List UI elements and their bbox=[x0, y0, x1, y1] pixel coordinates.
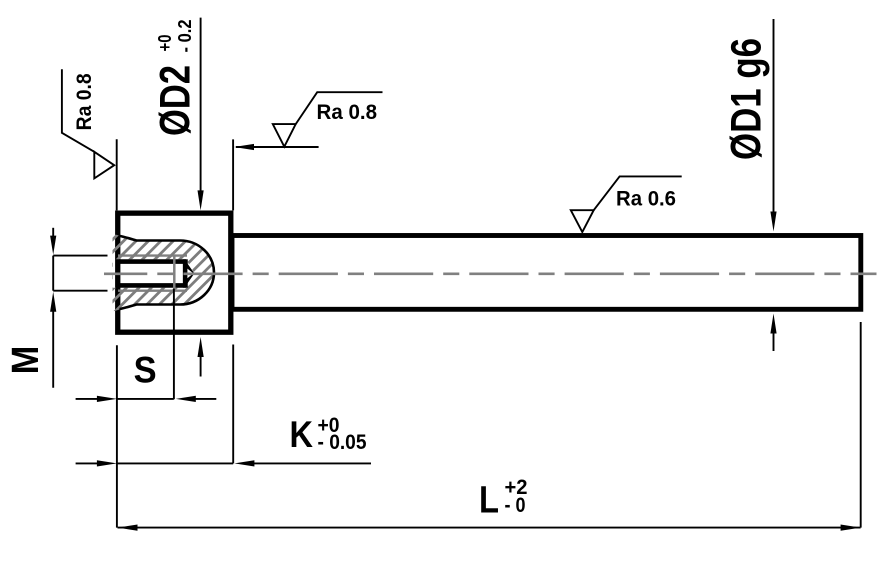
label ØD1 g6 (rotated) bbox=[722, 38, 770, 160]
L dimension line bbox=[118, 525, 861, 531]
tolerance +0 for K bbox=[318, 414, 340, 437]
surface finish symbol Ra 0.8 middle bbox=[273, 92, 383, 147]
dimension D1 arrow top bbox=[770, 19, 776, 232]
dimension D2 arrow bottom bbox=[198, 337, 204, 377]
label Ra 0.6 bbox=[616, 187, 676, 210]
head outline bbox=[118, 213, 231, 332]
thread depth line bbox=[173, 254, 176, 288]
M dimension line bbox=[50, 228, 56, 388]
extension line K right bbox=[232, 345, 234, 464]
extension line S right bbox=[173, 289, 175, 400]
svg-text:ØD1 g6: ØD1 g6 bbox=[722, 38, 770, 160]
label Ra 0.8 middle bbox=[317, 101, 378, 124]
thread crest line bottom bbox=[118, 290, 187, 292]
thread bore minor diameter bbox=[120, 259, 187, 287]
svg-text:- 0.2: - 0.2 bbox=[175, 20, 195, 53]
label Ra 0.8 left (rotated) bbox=[73, 73, 96, 130]
svg-text:- 0: - 0 bbox=[505, 494, 526, 517]
M extension line bottom bbox=[53, 290, 107, 292]
svg-text:Ra 0.6: Ra 0.6 bbox=[616, 187, 676, 210]
leader arrow Ra 0.8 middle bbox=[234, 144, 319, 150]
surface finish symbol Ra 0.8 left (rotated) bbox=[62, 69, 114, 178]
extension line head left below bbox=[116, 345, 118, 527]
surface finish symbol Ra 0.6 on shaft bbox=[571, 176, 682, 232]
shaft outline bbox=[232, 236, 861, 310]
label M (rotated) bbox=[5, 346, 47, 375]
tolerance +0 (rotated) bbox=[155, 35, 175, 52]
tolerance -0.2 (rotated) bbox=[175, 20, 195, 53]
tolerance -0.05 for K bbox=[318, 431, 367, 454]
extension line L right bbox=[860, 322, 862, 528]
section hatching bbox=[40, 230, 296, 312]
extension line head right above bbox=[232, 139, 234, 210]
M extension line top bbox=[53, 255, 107, 257]
thread outer profile bbox=[120, 236, 215, 309]
extension line head left above bbox=[116, 139, 118, 210]
tolerance +2 for L bbox=[505, 476, 528, 499]
tolerance -0 for L bbox=[505, 494, 526, 517]
svg-text:Ra 0.8: Ra 0.8 bbox=[317, 101, 378, 124]
svg-text:M: M bbox=[5, 346, 47, 375]
svg-text:- 0.05: - 0.05 bbox=[318, 431, 367, 454]
label K bbox=[290, 414, 314, 455]
svg-text:S: S bbox=[134, 349, 157, 390]
svg-text:+0: +0 bbox=[155, 35, 175, 52]
label L bbox=[479, 479, 499, 521]
label S bbox=[134, 349, 157, 390]
svg-text:Ra 0.8: Ra 0.8 bbox=[73, 73, 96, 130]
svg-text:K: K bbox=[290, 414, 314, 455]
svg-text:ØD2: ØD2 bbox=[151, 65, 199, 136]
dimension D2 arrow top bbox=[198, 18, 204, 211]
thread crest line top bbox=[118, 254, 187, 256]
label ØD2 (rotated) bbox=[151, 65, 199, 136]
dimension D1 arrow bottom bbox=[770, 314, 776, 352]
drill point cone bbox=[185, 259, 195, 287]
centerline bbox=[104, 272, 877, 275]
K dimension line bbox=[76, 460, 371, 466]
svg-text:L: L bbox=[479, 479, 499, 521]
S dimension line bbox=[76, 396, 217, 402]
